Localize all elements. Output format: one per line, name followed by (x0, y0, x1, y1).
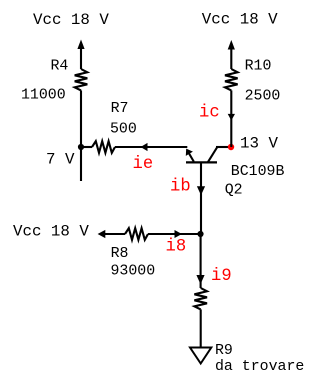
wire base vertical (200, 163, 202, 234)
transistor Q2 (186, 148, 217, 163)
svg-text:500: 500 (110, 122, 137, 138)
svg-text:R4: R4 (51, 59, 69, 75)
svg-text:R8: R8 (111, 246, 129, 262)
current arrow ic (228, 114, 235, 121)
svg-text:da trovare: da trovare (215, 359, 304, 375)
power Vcc left arrow (77, 40, 84, 70)
svg-text:2500: 2500 (245, 88, 281, 104)
current arrow i9 (196, 275, 204, 284)
ground symbol (190, 348, 211, 364)
svg-text:ic: ic (199, 104, 220, 123)
node 7V junction dot (78, 144, 84, 150)
svg-text:i8: i8 (166, 238, 187, 257)
resistor R8 (125, 228, 148, 240)
resistor R9 (194, 288, 207, 309)
svg-text:11000: 11000 (21, 88, 66, 104)
svg-text:7 V: 7 V (46, 151, 75, 169)
svg-text:Vcc 18 V: Vcc 18 V (13, 223, 89, 241)
svg-text:Vcc 18 V: Vcc 18 V (202, 11, 278, 29)
resistor R10 (225, 69, 238, 90)
svg-text:Q2: Q2 (225, 183, 243, 199)
svg-text:R9: R9 (215, 343, 233, 359)
wire Vcc to R8 (103, 233, 125, 235)
wire node to R9 (200, 234, 202, 288)
svg-text:Vcc 18 V: Vcc 18 V (33, 11, 109, 29)
wire R9 to ground (200, 309, 202, 347)
wire R8 to node (148, 233, 201, 235)
resistor R7 (92, 141, 115, 153)
power Vcc right arrow (228, 40, 235, 69)
wire node to R7 (81, 146, 92, 148)
svg-text:i9: i9 (211, 267, 232, 286)
current arrow i8 (175, 230, 182, 238)
svg-text:13 V: 13 V (240, 135, 278, 153)
node collector red dot (228, 144, 234, 150)
wire collector vertical (230, 90, 232, 147)
wire collector to dot (216, 146, 229, 148)
svg-text:ie: ie (133, 155, 154, 174)
svg-text:R10: R10 (245, 58, 272, 74)
resistor R4 (75, 69, 88, 90)
power Vcc bottom arrow (98, 230, 106, 238)
current arrow ie (141, 143, 148, 151)
svg-text:BC109B: BC109B (231, 164, 285, 180)
svg-text:R7: R7 (111, 101, 129, 117)
svg-text:93000: 93000 (111, 264, 156, 280)
current arrow ib (197, 186, 205, 195)
svg-text:ib: ib (170, 177, 191, 196)
wire stub below node (80, 147, 82, 181)
wire R7 to emitter (115, 146, 187, 148)
wire R4 to node (80, 90, 82, 147)
node base junction dot (197, 231, 203, 237)
